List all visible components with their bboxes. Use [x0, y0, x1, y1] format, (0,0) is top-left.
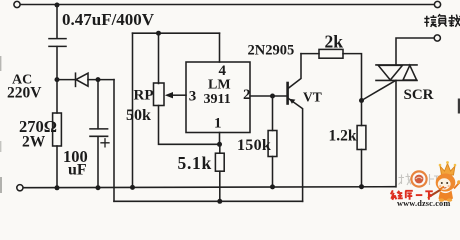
svg-text:uF: uF [68, 161, 87, 178]
wire gate diagonal to SCR [362, 81, 396, 101]
node gate/1.2k [359, 98, 364, 103]
wire 2k to gate node [343, 54, 362, 101]
svg-text:50k: 50k [126, 107, 151, 124]
wire 5.1k bottom lead [219, 171, 221, 201]
wire collector to 2k [301, 53, 319, 55]
terminal top-right [434, 1, 440, 7]
svg-text:LM: LM [208, 78, 231, 93]
resistor 2k box [319, 49, 343, 58]
transistor emitter lead [289, 99, 303, 202]
wire pin 1 lead [219, 133, 221, 145]
node 1.2k bottom [359, 184, 364, 189]
terminal top-left [14, 1, 20, 7]
RP wiper arrow wire from pin 3 [172, 94, 186, 96]
node left branch bottom [130, 185, 135, 190]
feet [439, 198, 444, 201]
terminal bottom-left [17, 185, 23, 191]
svg-text:2: 2 [243, 87, 251, 103]
svg-text:2N2905: 2N2905 [248, 43, 295, 59]
transistor Q1 base bar [286, 83, 289, 104]
eyes [441, 182, 443, 184]
wire pin 4 lead [219, 33, 221, 62]
diode VD triangle [76, 73, 88, 86]
resistor 5.1k box [215, 153, 224, 171]
char 负 [438, 14, 447, 26]
watermark mascot [428, 161, 460, 202]
pen [430, 185, 450, 197]
wire 5.1k top lead [219, 144, 221, 153]
char 下 [425, 191, 433, 200]
SCR top bar [376, 64, 417, 66]
left arm [440, 187, 445, 190]
svg-text:5.1k: 5.1k [178, 153, 212, 173]
terminal load [434, 35, 440, 41]
char 维 [391, 190, 403, 200]
wire 270ohm lower lead [56, 146, 58, 188]
svg-text:3911: 3911 [204, 92, 231, 107]
wire top rail [21, 4, 435, 6]
node diode row left [55, 77, 60, 82]
resistor 1.2k box [357, 126, 366, 150]
wire 150k top lead [272, 96, 274, 131]
SCR left triangle [378, 65, 402, 80]
node pin1 / RP / 5.1k [217, 142, 222, 147]
SCR bottom bar [376, 79, 417, 81]
resistor 270ohm box [53, 113, 62, 146]
plus sign of 100uF [101, 139, 109, 147]
wire node down to 100uF [97, 80, 99, 129]
wire bottom supply line [114, 200, 303, 202]
capacitor 0.47uF/400V plates [49, 39, 66, 47]
wire 1.2k bottom lead [361, 150, 363, 187]
wire capacitor to diode node [56, 47, 58, 80]
head [436, 174, 456, 192]
svg-text:220V: 220V [7, 85, 42, 102]
node RP top [156, 31, 161, 36]
wire left branch of RP network [132, 33, 134, 187]
svg-text:3: 3 [189, 88, 197, 104]
svg-text:SCR: SCR [404, 87, 434, 103]
node 100uF bottom [96, 185, 101, 190]
wire diode to node [88, 79, 114, 81]
char 找 faint [399, 174, 412, 186]
wire RP top lead [158, 33, 160, 83]
char 载 [448, 15, 460, 27]
wire 100uF to bottom rail [97, 136, 99, 187]
char 一 [416, 194, 423, 196]
diode VD cathode bar [75, 73, 77, 86]
wire pin 2 to base [250, 95, 287, 97]
svg-text:150k: 150k [237, 137, 271, 154]
wire SCR MT2 to terminal [396, 38, 434, 65]
blush [439, 185, 441, 187]
wire top of RP network [133, 32, 220, 34]
node 270ohm bottom [55, 185, 60, 190]
crown [440, 164, 455, 176]
watermark: faint gray text [399, 174, 439, 186]
svg-text:0.47uF/400V: 0.47uF/400V [62, 10, 155, 29]
capacitor 100uF plates [90, 129, 108, 136]
mouth [443, 186, 446, 189]
char 片 faint [430, 174, 439, 185]
wire node to 1.2k [361, 101, 363, 126]
wire RP bottom lead [159, 106, 220, 145]
wire down to capacitor C1 [56, 5, 58, 38]
SCR right triangle [403, 65, 417, 80]
svg-text:RP: RP [134, 88, 154, 104]
svg-text:2k: 2k [325, 32, 344, 52]
right arm [454, 184, 459, 189]
wire to diode [57, 79, 76, 81]
node 150k top [270, 94, 275, 99]
node 150k bottom [270, 184, 275, 189]
wire 270ohm upper lead [56, 80, 58, 113]
node at 0.47uF branch [55, 3, 60, 8]
svg-text:VT: VT [303, 90, 322, 105]
watermark seal [411, 171, 426, 186]
node 5.1k to supply line [217, 199, 222, 204]
svg-text:1.2k: 1.2k [329, 127, 357, 144]
svg-text:2W: 2W [22, 133, 46, 150]
scan marks left edge [0, 56, 2, 71]
transistor emitter arrow (PNP) [289, 99, 295, 104]
label 接负载 (connect load) drawn as strokes [424, 14, 460, 27]
body [439, 191, 454, 201]
char 接 [424, 15, 436, 27]
watermark red text 维库一下 drawn as strokes [391, 190, 433, 200]
wire 150k bottom lead [272, 157, 274, 187]
resistor 150k box [268, 131, 277, 157]
face [438, 178, 451, 189]
potentiometer RP 50k box [154, 83, 165, 106]
char 库 [405, 191, 413, 200]
transistor collector lead [289, 54, 301, 88]
scan mark right edge [458, 99, 460, 114]
wire supply line down right of 100uF [113, 80, 115, 202]
RP wiper arrowhead [165, 92, 173, 98]
svg-text:www.dzsc.com: www.dzsc.com [397, 199, 450, 207]
node rectified supply [96, 77, 101, 82]
bottom rail wire [24, 187, 396, 188]
wire SCR MT1 down to rail [395, 80, 397, 186]
op-amp U1 LM3911 box [186, 62, 250, 133]
svg-text:1: 1 [214, 116, 222, 132]
